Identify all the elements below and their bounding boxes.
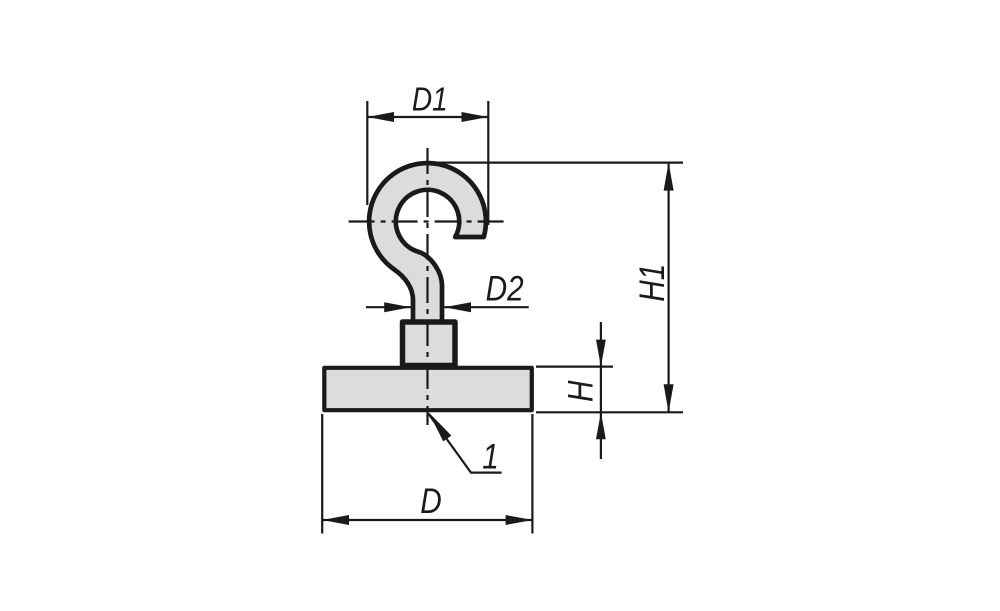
svg-text:D: D xyxy=(420,482,441,521)
svg-text:H: H xyxy=(561,380,600,402)
svg-text:1: 1 xyxy=(482,437,499,476)
svg-text:D1: D1 xyxy=(412,81,448,118)
svg-text:D2: D2 xyxy=(486,269,524,308)
svg-text:H1: H1 xyxy=(633,264,672,302)
